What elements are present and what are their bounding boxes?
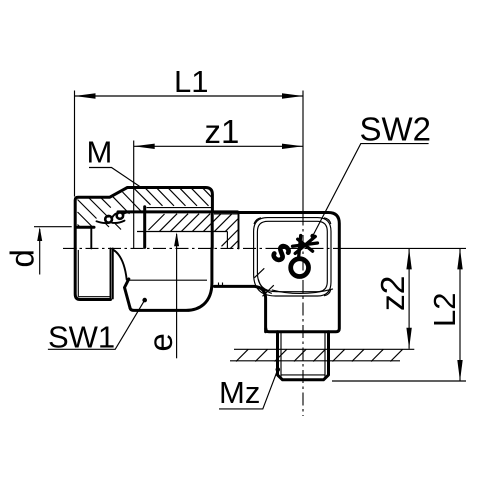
horizontal centerline of left port — [63, 247, 340, 249]
bore line — [137, 231, 227, 233]
cutting ring: nose — [123, 212, 136, 214]
stamp: snowflake — [293, 236, 318, 257]
L2 bottom extension line — [332, 380, 466, 382]
nut thread end face — [90, 227, 92, 248]
block inner face inner outline — [257, 221, 327, 291]
svg-text:L2: L2 — [427, 293, 462, 327]
svg-text:Mz: Mz — [219, 375, 260, 410]
svg-text:d: d — [3, 249, 40, 267]
svg-text:z1: z1 — [205, 113, 240, 150]
nut right face upper part — [211, 212, 214, 249]
body thread crest (thick) — [118, 210, 238, 213]
dimension z2 — [408, 248, 410, 348]
nut hatching (left-down direction) — [78, 188, 213, 229]
neck thread root — [214, 213, 238, 215]
face corner chamfer arcs — [254, 218, 261, 224]
body hatching (right-up direction) — [149, 214, 239, 249]
threaded skirt external — [75, 248, 110, 299]
svg-text:e: e — [142, 333, 179, 351]
cutting ring: loop 2 — [117, 212, 123, 218]
block outline — [239, 213, 340, 332]
nut skirt bore line (d) — [77, 226, 94, 229]
cutting ring: tail — [97, 221, 109, 223]
body cone edge — [143, 207, 146, 248]
bore step — [226, 232, 228, 249]
dimension L1 — [74, 91, 76, 197]
nut chamfer curve — [113, 250, 127, 280]
skirt end face double line — [110, 248, 112, 299]
cutting ring: rise — [112, 212, 120, 218]
svg-text:M: M — [87, 135, 113, 170]
nut outer profile top — [75, 188, 212, 249]
stamp: S — [272, 244, 290, 263]
neck thread marks right of nut — [218, 283, 220, 287]
block face boundary (left) — [238, 213, 240, 249]
wall lower line — [230, 360, 400, 362]
axis extension right for z2/L2 — [340, 247, 466, 249]
vertical centerline of elbow — [302, 91, 304, 213]
fillet between neck and block — [258, 279, 271, 293]
stamp: O — [291, 259, 309, 277]
nut hex face line — [128, 279, 208, 281]
wall hatching — [236, 349, 403, 361]
block lower inner face sag line — [272, 289, 333, 294]
block inner face outer outline — [254, 218, 331, 296]
mounting wall surface line — [234, 348, 414, 350]
svg-text:z2: z2 — [375, 276, 412, 311]
svg-text:L1: L1 — [174, 64, 208, 99]
nut hex corner V — [125, 279, 131, 308]
dimension d (rotated label, single arrow) — [34, 226, 72, 228]
cutting ring: lower edge — [112, 221, 125, 223]
neck bottom and corner into block — [214, 286, 265, 331]
dimension e (rotated label, single arrow) — [176, 234, 178, 358]
dimension L2 — [459, 248, 461, 381]
body thread line under nut (thin) — [147, 207, 213, 209]
svg-text:SW2: SW2 — [360, 111, 432, 148]
cutting ring: loop 1 — [105, 216, 112, 223]
nut bottom and right — [130, 248, 212, 310]
dimension z1 — [133, 141, 135, 249]
